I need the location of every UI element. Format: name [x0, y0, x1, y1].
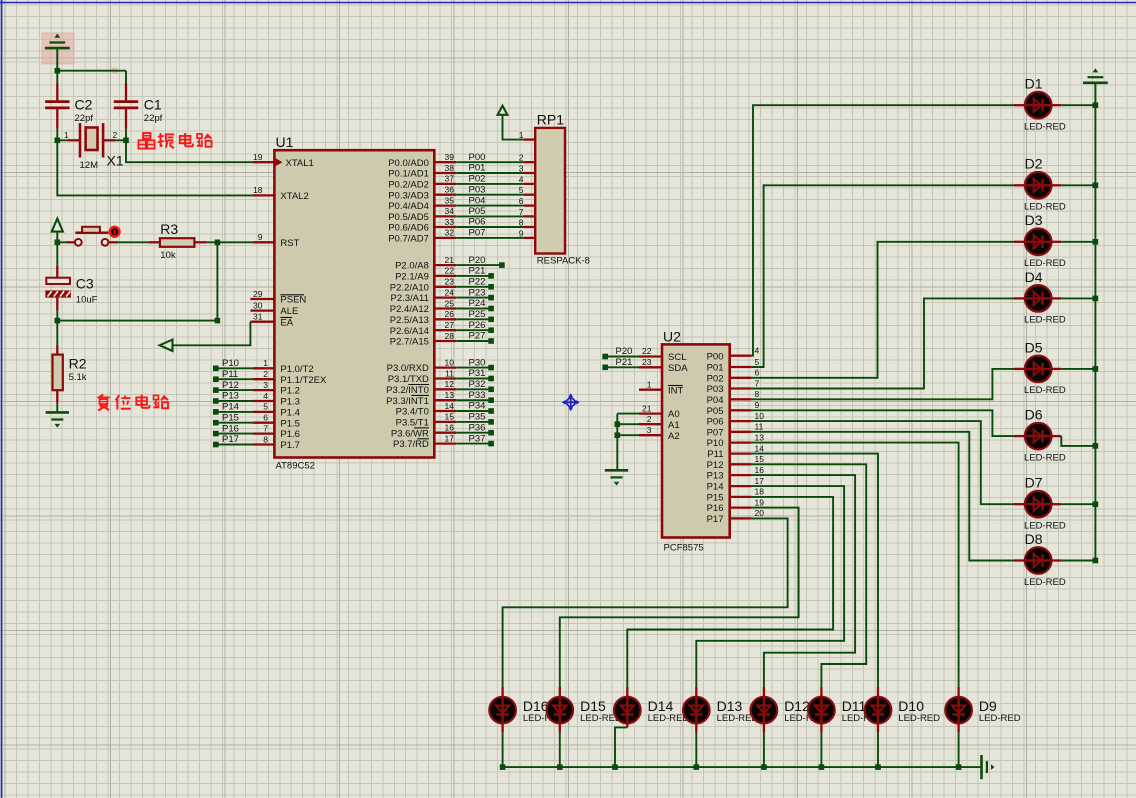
svg-text:10uF: 10uF	[76, 295, 98, 306]
svg-text:C3: C3	[76, 276, 94, 292]
svg-text:D11: D11	[842, 698, 867, 714]
svg-text:P11: P11	[707, 449, 723, 460]
svg-text:P06: P06	[707, 417, 724, 428]
svg-text:P1.3: P1.3	[280, 397, 300, 408]
svg-text:LED-RED: LED-RED	[1024, 258, 1066, 269]
U1 pin P1.2 (3) with net label P12	[213, 380, 300, 397]
svg-text:D12: D12	[784, 698, 810, 714]
power arrow at RP1 pin 1	[498, 106, 524, 140]
P17 wire to D16	[503, 518, 788, 687]
svg-text:P2.5/A13: P2.5/A13	[390, 315, 429, 326]
svg-text:19: 19	[755, 497, 765, 507]
wire D13 to bus	[695, 722, 697, 732]
svg-text:15: 15	[445, 412, 455, 422]
svg-text:LED-RED: LED-RED	[1024, 122, 1066, 133]
svg-text:2: 2	[263, 369, 268, 379]
svg-text:LED-RED: LED-RED	[1024, 315, 1066, 326]
led D15 LED-RED (vertical)	[547, 687, 622, 725]
svg-text:LED-RED: LED-RED	[1024, 385, 1066, 396]
svg-text:XTAL1: XTAL1	[286, 158, 314, 169]
svg-text:22: 22	[642, 346, 652, 356]
svg-text:17: 17	[755, 476, 765, 486]
junction node below R3	[215, 240, 221, 246]
svg-text:LED-RED: LED-RED	[1024, 452, 1066, 463]
U1 pin P1.7 (8) with net label P17	[213, 434, 300, 451]
svg-text:11: 11	[755, 422, 764, 432]
svg-text:P1.2: P1.2	[280, 386, 300, 397]
svg-text:P30: P30	[469, 357, 486, 368]
U1 pin P2.5/A13 (26) with net label P25	[390, 309, 494, 326]
svg-text:P32: P32	[469, 379, 486, 390]
U2 pin P15 (18)	[707, 487, 765, 504]
junction D1 bus	[1093, 102, 1099, 108]
svg-text:P0.4/AD4: P0.4/AD4	[388, 201, 429, 212]
svg-text:P2.4/A12: P2.4/A12	[390, 304, 429, 315]
svg-text:19: 19	[253, 152, 263, 162]
wire D6 to bus (jog)	[1061, 436, 1095, 446]
svg-text:P37: P37	[469, 433, 486, 444]
label reset circuit (Chinese)	[97, 395, 168, 411]
svg-text:3: 3	[519, 163, 524, 173]
wire reset node down to C3	[56, 242, 58, 265]
svg-text:P05: P05	[707, 406, 724, 417]
U1 pin P2.7/A15 (28) with net label P27	[390, 331, 494, 348]
junction node X1 pin1	[55, 138, 61, 144]
P07 wire to D8	[751, 432, 1014, 561]
wire D7 to bus	[1061, 503, 1095, 505]
svg-text:R3: R3	[160, 221, 178, 237]
svg-text:INT: INT	[668, 385, 684, 396]
RP1 pin 5	[519, 185, 524, 195]
U1 pin P1.1/T2EX (2) with net label P11	[213, 369, 327, 386]
junction D15 bus	[557, 764, 563, 770]
svg-text:AT89C52: AT89C52	[276, 461, 315, 472]
svg-text:P01: P01	[707, 363, 724, 374]
U1 pin P2.3/A11 (24) with net label P23	[391, 287, 494, 304]
P13 wire to D12	[751, 475, 855, 687]
svg-text:U2: U2	[663, 329, 681, 345]
push button	[57, 227, 119, 246]
label crystal circuit (Chinese)	[139, 133, 212, 149]
svg-text:P13: P13	[222, 391, 239, 402]
U1 pin P1.5 (6) with net label P15	[213, 412, 300, 429]
svg-text:LED-RED: LED-RED	[1024, 577, 1066, 588]
svg-text:P0.2/AD2: P0.2/AD2	[388, 180, 429, 191]
svg-text:P1.7: P1.7	[280, 440, 300, 451]
svg-text:10k: 10k	[160, 250, 176, 261]
svg-text:P34: P34	[469, 401, 486, 412]
svg-text:P27: P27	[469, 331, 486, 342]
svg-text:5: 5	[519, 185, 524, 195]
wire XTAL2 from node 1	[57, 140, 252, 195]
svg-text:1: 1	[519, 130, 524, 140]
svg-text:8: 8	[263, 434, 268, 444]
capacitor C2	[45, 83, 93, 129]
led D9 LED-RED (vertical)	[945, 687, 1020, 725]
svg-text:34: 34	[445, 206, 455, 216]
U1 pin P3.2/INT0 (12) with net label P32	[386, 379, 494, 396]
svg-text:P10: P10	[707, 438, 724, 449]
svg-text:P12: P12	[222, 380, 239, 391]
junction D7 bus	[1093, 501, 1099, 507]
svg-text:15: 15	[755, 454, 765, 464]
U1 pin P2.1/A9 (22) with net label P21	[395, 266, 494, 283]
P10 wire to D9	[751, 443, 958, 687]
resistor R2	[53, 345, 87, 403]
svg-text:D14: D14	[648, 698, 674, 714]
svg-text:D4: D4	[1025, 269, 1043, 285]
P00 wire to D1	[751, 105, 1014, 356]
svg-text:36: 36	[445, 185, 455, 195]
led D13 LED-RED (vertical)	[683, 687, 758, 725]
ground (below R2)	[46, 412, 69, 427]
U1 pin P0.4/AD4 (35) wire to RP1 with net label P04	[388, 195, 535, 212]
svg-text:35: 35	[445, 195, 455, 205]
U2 pin INT (1)	[639, 379, 684, 396]
svg-text:LED-RED: LED-RED	[979, 713, 1021, 724]
svg-text:A2: A2	[668, 431, 680, 442]
wire C3 to net	[56, 310, 58, 320]
junction D8 bus	[1093, 558, 1099, 564]
svg-text:P03: P03	[707, 384, 724, 395]
U2 pin P14 (17)	[707, 476, 765, 493]
svg-text:D3: D3	[1025, 212, 1043, 228]
svg-text:SCL: SCL	[668, 352, 686, 363]
RP1 pin 2	[519, 153, 524, 163]
svg-text:P06: P06	[469, 217, 486, 228]
led D7 LED-RED	[1014, 475, 1066, 532]
svg-text:D7: D7	[1025, 475, 1043, 491]
junction D16 bus	[500, 764, 506, 770]
LED cathode bus (bottom row)	[503, 766, 982, 768]
svg-text:38: 38	[445, 163, 455, 173]
io expander U2 PCF8575 body	[662, 329, 730, 554]
U2 pin SDA (23) with net label P21	[602, 357, 688, 374]
svg-text:D5: D5	[1025, 339, 1043, 355]
U1 pin P0.6/AD6 (33) wire to RP1 with net label P06	[388, 217, 535, 234]
wire D15 to bus	[559, 722, 561, 732]
svg-text:P16: P16	[707, 503, 724, 514]
U1 pin P0.7/AD7 (32) wire to RP1 with net label P07	[388, 228, 535, 245]
P06 wire to D7	[751, 421, 1014, 504]
svg-text:ALE: ALE	[280, 306, 298, 317]
svg-text:16: 16	[755, 465, 765, 475]
led D11 LED-RED (vertical)	[808, 687, 883, 725]
svg-text:28: 28	[445, 331, 455, 341]
P04 wire to D5	[751, 369, 1014, 399]
wire C1 top stem	[125, 71, 127, 83]
svg-text:P17: P17	[707, 514, 724, 525]
origin marker (blue crosshair)	[562, 393, 580, 411]
wire D1 to bus	[1061, 104, 1095, 106]
junction node C3 bottom	[55, 318, 61, 324]
svg-text:P07: P07	[707, 427, 724, 438]
svg-text:9: 9	[755, 400, 760, 410]
svg-text:31: 31	[253, 312, 263, 322]
svg-text:14: 14	[445, 401, 455, 411]
svg-text:13: 13	[755, 432, 765, 442]
svg-text:20: 20	[755, 508, 765, 518]
svg-text:P3.4/T0: P3.4/T0	[396, 407, 429, 418]
svg-text:LED-RED: LED-RED	[1024, 521, 1066, 532]
svg-text:P10: P10	[222, 358, 239, 369]
ground (U2 address pins)	[605, 470, 628, 485]
svg-text:P3.1/TXD: P3.1/TXD	[388, 374, 429, 385]
wire D9 to bus	[957, 722, 959, 732]
U1 pin P0.0/AD0 (39) wire to RP1 with net label P00	[388, 152, 535, 169]
svg-text:23: 23	[642, 357, 652, 367]
U1 pin P0.2/AD2 (37) wire to RP1 with net label P02	[388, 174, 535, 191]
U1 pin P2.6/A14 (27) with net label P26	[390, 320, 494, 337]
led D5 LED-RED	[1014, 339, 1066, 396]
svg-text:24: 24	[445, 287, 455, 297]
svg-text:EA: EA	[280, 317, 293, 328]
svg-text:P17: P17	[222, 434, 239, 445]
U1 pin P1.0/T2 (1) with net label P10	[213, 358, 314, 375]
wire junction down to C3 bottom net	[216, 242, 218, 320]
U2 pin P04 (8)	[707, 389, 760, 406]
U2 pin P02 (6)	[707, 368, 760, 385]
resistor R3	[148, 221, 207, 261]
svg-text:14: 14	[755, 443, 765, 453]
svg-text:32: 32	[445, 228, 455, 238]
svg-text:13: 13	[445, 390, 455, 400]
wire D4 to bus	[1061, 297, 1095, 299]
capacitor C3 (electrolytic)	[45, 265, 97, 310]
svg-text:22pf: 22pf	[144, 113, 163, 124]
svg-text:P3.2/INT0: P3.2/INT0	[386, 385, 429, 396]
U1 pin ALE (30)	[250, 300, 298, 317]
svg-text:8: 8	[519, 217, 524, 227]
svg-text:P05: P05	[469, 206, 486, 217]
svg-text:1: 1	[64, 130, 69, 140]
svg-text:P1.6: P1.6	[280, 429, 300, 440]
power arrow (reset)	[52, 219, 63, 243]
wire D2 to bus	[1061, 184, 1095, 186]
ground (top right)	[1083, 68, 1108, 105]
svg-text:1: 1	[647, 379, 652, 389]
svg-text:10: 10	[445, 357, 455, 367]
svg-text:1: 1	[263, 358, 268, 368]
svg-text:P04: P04	[707, 395, 724, 406]
U2 pin P06 (10)	[707, 411, 765, 428]
wire D5 to bus	[1061, 368, 1095, 370]
svg-text:P1.4: P1.4	[280, 408, 300, 419]
U1 pin P3.6/WR (16) with net label P36	[391, 422, 494, 439]
svg-text:23: 23	[445, 277, 455, 287]
svg-text:5: 5	[755, 357, 760, 367]
led D14 LED-RED (vertical)	[614, 687, 689, 725]
P15 wire to D14	[627, 497, 833, 687]
junction D14 bus	[612, 764, 618, 770]
svg-text:3: 3	[263, 380, 268, 390]
svg-text:PSEN: PSEN	[280, 295, 306, 306]
led D8 LED-RED	[1014, 531, 1066, 588]
svg-text:P16: P16	[222, 423, 239, 434]
U2 pin A1 (2)	[615, 414, 680, 431]
junction D11 bus	[819, 764, 825, 770]
svg-text:2: 2	[647, 414, 652, 424]
svg-text:P1.1/T2EX: P1.1/T2EX	[280, 375, 327, 386]
svg-text:P0.6/AD6: P0.6/AD6	[388, 223, 429, 234]
svg-text:12M: 12M	[80, 160, 99, 171]
svg-text:P33: P33	[469, 390, 486, 401]
U1 pin P3.5/T1 (15) with net label P35	[396, 412, 494, 429]
led D10 LED-RED (vertical)	[865, 687, 940, 725]
svg-text:RST: RST	[280, 238, 299, 249]
svg-text:P07: P07	[469, 228, 486, 239]
wire D10 to bus	[877, 722, 879, 732]
svg-text:P20: P20	[616, 346, 633, 357]
led D2 LED-RED	[1014, 156, 1066, 213]
svg-text:16: 16	[445, 423, 455, 433]
P05 wire to D6	[751, 410, 1014, 436]
junction D13 bus	[694, 764, 700, 770]
U1 pin XTAL2 (18)	[253, 185, 309, 202]
wire D3 to bus	[1061, 241, 1095, 243]
svg-text:D6: D6	[1025, 407, 1043, 423]
P11 wire to D10	[751, 454, 878, 687]
svg-text:D13: D13	[717, 698, 743, 714]
svg-text:6: 6	[519, 196, 524, 206]
svg-text:P2.6/A14: P2.6/A14	[390, 326, 429, 337]
P14 wire to D13	[696, 486, 844, 687]
svg-text:11: 11	[445, 368, 454, 378]
U1 pin P1.3 (4) with net label P13	[213, 391, 300, 408]
wire EA pin down and left	[173, 322, 251, 346]
svg-text:SDA: SDA	[668, 363, 688, 374]
junction D9 bus	[956, 764, 962, 770]
svg-text:12: 12	[445, 379, 455, 389]
svg-text:5: 5	[263, 402, 268, 412]
svg-text:P24: P24	[469, 298, 486, 309]
U2 pin P13 (16)	[707, 465, 765, 482]
U2 pin P01 (5)	[707, 357, 760, 374]
wire C1 bottom to node 2	[125, 129, 127, 141]
P03 wire to D4	[751, 298, 1014, 388]
svg-text:X1: X1	[107, 153, 124, 169]
junction node at C2 top	[55, 68, 61, 74]
svg-text:LED-RED: LED-RED	[898, 713, 940, 724]
U1 pin P2.4/A12 (25) with net label P24	[390, 298, 494, 315]
svg-text:P2.7/A15: P2.7/A15	[390, 337, 429, 348]
svg-text:P1.0/T2: P1.0/T2	[280, 364, 313, 375]
svg-text:P03: P03	[469, 184, 486, 195]
svg-text:D9: D9	[979, 698, 997, 714]
svg-text:P14: P14	[222, 402, 239, 413]
U2 pin P05 (9)	[707, 400, 760, 417]
U1 pin P3.1/TXD (11) with net label P31	[388, 368, 494, 385]
wire D14 to bus (jog)	[626, 722, 628, 727]
svg-text:22: 22	[445, 266, 455, 276]
svg-text:4: 4	[519, 174, 524, 184]
capacitor C1	[114, 83, 163, 129]
svg-text:P3.5/T1: P3.5/T1	[396, 418, 429, 429]
svg-text:P21: P21	[616, 357, 633, 368]
crystal X1	[57, 123, 126, 171]
P02 wire to D3	[751, 242, 1014, 378]
junction D4 bus	[1093, 296, 1099, 302]
svg-text:18: 18	[755, 487, 765, 497]
svg-text:P0.3/AD3: P0.3/AD3	[388, 190, 429, 201]
U1 pin P0.3/AD3 (36) wire to RP1 with net label P03	[388, 184, 535, 201]
U1 pin PSEN (29)	[250, 289, 306, 306]
svg-text:33: 33	[445, 217, 455, 227]
led D1 LED-RED	[1014, 76, 1066, 133]
svg-text:P21: P21	[469, 266, 486, 277]
svg-text:27: 27	[445, 320, 455, 330]
svg-text:8: 8	[755, 389, 760, 399]
junction D10 bus	[875, 764, 881, 770]
svg-text:P13: P13	[707, 471, 724, 482]
RP1 pin 9	[519, 228, 524, 238]
svg-text:2: 2	[113, 130, 118, 140]
svg-text:P14: P14	[707, 482, 724, 493]
svg-text:30: 30	[253, 300, 263, 310]
svg-text:D15: D15	[580, 698, 606, 714]
P16 wire to D15	[560, 508, 799, 687]
U2 pin P07 (11)	[707, 422, 764, 439]
svg-text:P23: P23	[469, 287, 486, 298]
U2 pin A2 (3)	[615, 425, 680, 442]
svg-text:P31: P31	[469, 368, 486, 379]
svg-text:21: 21	[642, 403, 652, 413]
svg-text:RESPACK-8: RESPACK-8	[537, 256, 590, 267]
svg-text:10: 10	[755, 411, 765, 421]
svg-text:P35: P35	[469, 412, 486, 423]
svg-text:21: 21	[445, 255, 455, 265]
wire XTAL1 from node 2	[126, 140, 253, 162]
LED cathode bus (right column)	[1094, 105, 1096, 560]
svg-text:PCF8575: PCF8575	[664, 543, 704, 554]
junction node right end	[215, 318, 221, 324]
led D6 LED-RED	[1014, 407, 1066, 464]
svg-text:P0.7/AD7: P0.7/AD7	[388, 234, 429, 245]
svg-text:26: 26	[445, 309, 455, 319]
svg-text:P3.0/RXD: P3.0/RXD	[387, 363, 429, 374]
resistor pack RP1 RESPACK-8 body	[535, 112, 590, 267]
RP1 pin 4	[519, 174, 524, 184]
svg-text:R2: R2	[69, 356, 87, 372]
U1 pin P2.2/A10 (23) with net label P22	[390, 277, 494, 294]
svg-text:P01: P01	[469, 163, 486, 174]
U2 pin P16 (19)	[707, 497, 765, 514]
svg-text:P02: P02	[469, 174, 486, 185]
P01 wire to D2	[751, 185, 1014, 367]
svg-text:3: 3	[647, 425, 652, 435]
U2 pin P00 (4)	[707, 346, 760, 363]
U2 pin P03 (7)	[707, 378, 760, 395]
U1 pin P1.6 (7) with net label P16	[213, 423, 300, 440]
svg-text:P3.3/INT1: P3.3/INT1	[386, 396, 429, 407]
svg-text:7: 7	[519, 207, 524, 217]
wire button to R3	[118, 241, 148, 243]
svg-text:P2.0/A8: P2.0/A8	[395, 261, 429, 272]
RP1 pin 7	[519, 207, 524, 217]
selection highlight box around top-left ground	[42, 33, 74, 64]
U1 pin P2.0/A8 (21) with net label P20	[395, 255, 505, 272]
led D3 LED-RED	[1014, 212, 1066, 269]
svg-text:2: 2	[519, 153, 524, 163]
U1 pin P0.5/AD5 (34) wire to RP1 with net label P05	[388, 206, 535, 223]
svg-text:P15: P15	[707, 493, 724, 504]
svg-text:P20: P20	[469, 255, 486, 266]
U2 pin P11 (14)	[707, 443, 764, 460]
mcu U1 AT89C52 body	[274, 134, 434, 472]
svg-text:6: 6	[263, 413, 268, 423]
svg-text:9: 9	[519, 228, 524, 238]
svg-text:LED-RED: LED-RED	[1024, 202, 1066, 213]
